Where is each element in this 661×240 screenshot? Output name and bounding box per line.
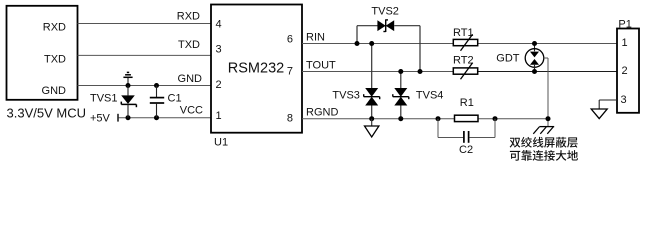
svg-text:3.3V/5V MCU: 3.3V/5V MCU bbox=[7, 106, 86, 121]
earth ground symbol bbox=[533, 127, 554, 134]
svg-text:TXD: TXD bbox=[44, 53, 66, 65]
GDT third electrode wire bbox=[544, 58, 548, 126]
svg-text:4: 4 bbox=[216, 19, 222, 31]
svg-text:3: 3 bbox=[216, 44, 222, 56]
+5V label bbox=[90, 113, 111, 125]
connector P1 box bbox=[617, 29, 639, 113]
svg-text:8: 8 bbox=[287, 113, 293, 125]
net label VCC bbox=[180, 105, 203, 117]
svg-text:RIN: RIN bbox=[306, 31, 325, 43]
MCU pin label RXD bbox=[43, 21, 66, 33]
junction GND/C1 bbox=[154, 83, 159, 88]
junction RIN/TVS2 bbox=[355, 41, 360, 46]
svg-text:7: 7 bbox=[287, 66, 293, 78]
svg-text:GND: GND bbox=[42, 85, 67, 97]
op-chip U1 RSM232 box bbox=[211, 5, 302, 133]
junction TOUT/GDT bbox=[532, 69, 537, 74]
signal ground (up) at GND bbox=[123, 72, 132, 85]
net label TOUT bbox=[306, 59, 336, 71]
+5V wire start tick bbox=[117, 114, 119, 122]
svg-text:RGND: RGND bbox=[306, 106, 338, 118]
wire RXD bbox=[78, 23, 212, 25]
annotation line1 (twisted-pair shield) bbox=[510, 137, 578, 148]
TVS2 label bbox=[371, 6, 399, 18]
U1 refdes label bbox=[214, 137, 228, 149]
gas discharge tube GDT bbox=[525, 44, 544, 72]
TVS1 label bbox=[90, 92, 118, 104]
ground (open triangle) at P1 pin3 bbox=[591, 109, 607, 119]
svg-text:TVS2: TVS2 bbox=[371, 6, 399, 18]
TVS4 label bbox=[416, 90, 444, 102]
junction RGND/R1 right bbox=[493, 116, 498, 121]
svg-text:C1: C1 bbox=[168, 92, 182, 104]
svg-text:6: 6 bbox=[287, 34, 293, 46]
diode TVS3 (bidirectional) bbox=[364, 44, 380, 119]
junction RGND/TVS4 bbox=[398, 116, 403, 121]
U1 pin 1 bbox=[216, 110, 222, 122]
net label RGND bbox=[306, 106, 338, 118]
U1 name RSM232 bbox=[228, 60, 284, 76]
junction RIN/TVS3 bbox=[369, 41, 374, 46]
junction RGND/TVS3 bbox=[369, 116, 374, 121]
resistor RT2 (PTC) bbox=[453, 63, 477, 80]
svg-text:RXD: RXD bbox=[43, 21, 66, 33]
svg-text:RXD: RXD bbox=[177, 10, 200, 22]
junction TOUT/TVS2 bbox=[418, 69, 423, 74]
capacitor C2 branch bbox=[438, 119, 495, 143]
resistor RT1 (PTC) bbox=[453, 34, 477, 51]
junction TOUT/TVS4 bbox=[398, 69, 403, 74]
svg-text:TVS1: TVS1 bbox=[90, 92, 118, 104]
MCU box bbox=[7, 6, 78, 100]
svg-text:3: 3 bbox=[621, 94, 627, 106]
MCU label 3.3V/5V MCU bbox=[7, 106, 86, 121]
wire +5V/VCC bbox=[118, 117, 211, 119]
svg-text:+5V: +5V bbox=[90, 113, 111, 125]
svg-text:TXD: TXD bbox=[178, 39, 200, 51]
P1 pin 2 bbox=[622, 65, 628, 77]
TVS3 label bbox=[332, 90, 360, 102]
net label RIN bbox=[306, 31, 325, 43]
resistor R1 bbox=[455, 115, 479, 121]
U1 pin 6 bbox=[287, 34, 293, 46]
wire GND bbox=[78, 85, 212, 87]
wire RIN bbox=[302, 43, 453, 45]
svg-text:2: 2 bbox=[216, 79, 222, 91]
P1 label bbox=[618, 18, 631, 30]
C2 label bbox=[459, 144, 473, 156]
P1 pin 3 bbox=[621, 94, 627, 106]
svg-text:GDT: GDT bbox=[496, 53, 520, 65]
P1 pin 1 bbox=[622, 37, 628, 49]
svg-text:1: 1 bbox=[622, 37, 628, 49]
diode TVS1 bbox=[121, 86, 136, 118]
svg-text:R1: R1 bbox=[460, 97, 474, 109]
wire TOUT after RT2 bbox=[478, 71, 617, 73]
net label RXD bbox=[177, 10, 200, 22]
wire TOUT bbox=[302, 71, 453, 73]
svg-text:U1: U1 bbox=[214, 137, 228, 149]
RT1 label bbox=[453, 27, 474, 39]
diode TVS4 (bidirectional) bbox=[393, 72, 409, 119]
svg-text:TVS3: TVS3 bbox=[332, 90, 360, 102]
svg-text:TOUT: TOUT bbox=[306, 59, 336, 71]
svg-text:TVS4: TVS4 bbox=[416, 90, 444, 102]
wire TXD bbox=[78, 54, 212, 56]
svg-text:1: 1 bbox=[216, 110, 222, 122]
junction RIN/GDT bbox=[532, 41, 537, 46]
capacitor C1 bbox=[150, 86, 164, 118]
P1 pin3 stub wire bbox=[599, 100, 617, 109]
wire RIN after RT1 bbox=[478, 43, 617, 45]
RT2 label bbox=[453, 54, 474, 66]
svg-text:P1: P1 bbox=[618, 18, 631, 30]
svg-text:2: 2 bbox=[622, 65, 628, 77]
junction RGND/R1 left bbox=[436, 116, 441, 121]
wire RGND bbox=[302, 118, 455, 120]
C1 label bbox=[168, 92, 182, 104]
GDT label bbox=[496, 53, 520, 65]
junction RGND/earth bbox=[546, 116, 551, 121]
MCU pin label GND bbox=[42, 85, 67, 97]
U1 pin 8 bbox=[287, 113, 293, 125]
U1 pin 7 bbox=[287, 66, 293, 78]
net label TXD bbox=[178, 39, 200, 51]
svg-text:GND: GND bbox=[178, 73, 203, 85]
junction GND/TVS1 bbox=[126, 83, 131, 88]
U1 pin 4 bbox=[216, 19, 222, 31]
diode TVS2 (bidirectional) bbox=[357, 19, 420, 32]
junction +5V/TVS1 bbox=[126, 115, 131, 120]
svg-text:C2: C2 bbox=[459, 144, 473, 156]
annotation line2 (connect to earth) bbox=[510, 150, 578, 161]
net label GND bbox=[178, 73, 203, 85]
wire RGND after R1 bbox=[478, 118, 548, 120]
U1 pin 2 bbox=[216, 79, 222, 91]
U1 pin 3 bbox=[216, 44, 222, 56]
TVS2 left leg bbox=[356, 26, 358, 44]
svg-text:RSM232: RSM232 bbox=[228, 60, 284, 76]
svg-text:VCC: VCC bbox=[180, 105, 203, 117]
R1 label bbox=[460, 97, 474, 109]
TVS2 right leg bbox=[419, 26, 421, 72]
MCU pin label TXD bbox=[44, 53, 66, 65]
junction +5V/C1 bbox=[154, 115, 159, 120]
ground (open triangle) below TVS3 bbox=[365, 119, 379, 137]
